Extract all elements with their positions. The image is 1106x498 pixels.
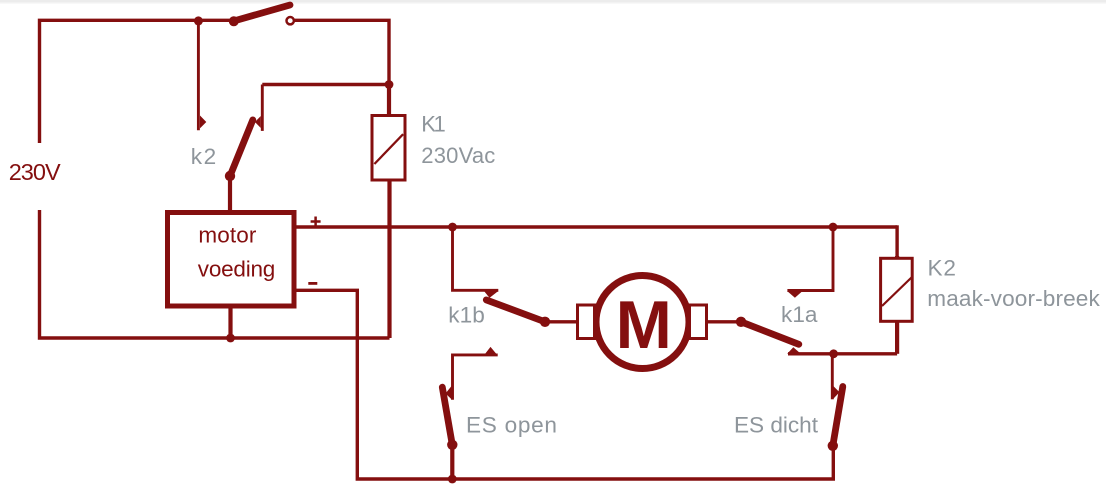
relay coil K2 top pin — [895, 256, 899, 260]
wire 230V lower left rail — [40, 210, 390, 338]
pushbutton ES dicht lead with arrow — [832, 354, 839, 400]
wire minus from box down and bottom rail — [294, 290, 833, 479]
relay coil K1 — [372, 116, 405, 181]
svg-text:maak-voor-breek: maak-voor-breek — [927, 286, 1100, 311]
relay contact k2 left lead with arrow — [198, 20, 206, 130]
svg-text:voeding: voeding — [198, 256, 275, 281]
relay coil K1 top pin — [387, 85, 391, 116]
relay contact k1b blade — [486, 300, 550, 327]
motor M1 left terminal — [578, 305, 595, 339]
svg-text:ES open: ES open — [466, 413, 557, 438]
wire k1b to motor left terminal — [545, 320, 578, 323]
label k1b — [448, 303, 485, 328]
junction node G (bottom rail / ES open) — [448, 475, 457, 484]
junction node B (K1 top) — [385, 80, 394, 89]
wire plus rail corner to K2 — [895, 225, 898, 258]
wire plus rail — [294, 225, 897, 228]
pushbutton ES dicht blade — [828, 387, 843, 451]
relay contact k2 right lead with arrow — [255, 85, 262, 131]
junction node D (plus rail / k1b lead) — [448, 223, 457, 232]
motor voeding top pin (from k2 blade pivot) — [228, 176, 232, 212]
relay contact k1b lead with arrow — [453, 227, 499, 298]
relay coil K2 bottom pin — [895, 321, 899, 354]
wire top rail from 230V to switch S1 — [40, 20, 234, 143]
junction node F (ES dicht top) — [829, 349, 838, 358]
label ES dicht — [734, 413, 819, 438]
junction node E (plus rail / k1a lead) — [829, 223, 838, 232]
svg-text:M: M — [616, 288, 672, 363]
svg-text:K1: K1 — [421, 112, 446, 137]
wire k2 right lead horizontal — [262, 83, 389, 86]
svg-text:K2: K2 — [928, 255, 957, 280]
relay coil K2 — [881, 258, 913, 321]
svg-text:k1b: k1b — [448, 303, 485, 328]
label K1 230Vac — [421, 112, 495, 168]
svg-text:230V: 230V — [9, 159, 61, 185]
junction node A (top rail / k2 lead) — [194, 16, 203, 25]
junction node C (bottom rail) — [226, 334, 235, 343]
switch S1 blade (main switch) — [229, 5, 290, 26]
label k2 — [191, 144, 217, 169]
label K2 maak-voor-breek — [927, 255, 1100, 311]
motor M1 letter M — [616, 288, 672, 363]
node 230V label — [9, 159, 61, 185]
relay contact k2 blade — [225, 120, 253, 181]
label ES open — [466, 413, 557, 438]
wire from S1 contact to K1 top — [294, 20, 389, 84]
label plus — [311, 217, 321, 227]
relay contact k1a lead with arrow — [787, 227, 833, 298]
wire right horizontal (k1a to K2 bottom) — [788, 352, 897, 355]
motor M1 circle — [596, 276, 689, 369]
svg-text:230Vac: 230Vac — [421, 143, 495, 168]
relay coil K1 bottom pin / wire to bottom rail — [387, 180, 391, 338]
svg-text:k2: k2 — [191, 144, 217, 169]
relay contact k1a blade — [736, 317, 801, 354]
wire motor right terminal to k1a pivot — [707, 320, 742, 323]
switch S1 open contact circle — [287, 17, 294, 24]
pushbutton ES open blade — [442, 387, 457, 450]
svg-text:k1a: k1a — [781, 302, 818, 327]
motor voeding bottom pin — [228, 306, 232, 338]
motor M1 right terminal — [690, 305, 707, 339]
motor voeding box U1 — [168, 213, 295, 307]
svg-text:motor: motor — [198, 222, 257, 247]
pushbutton ES open bottom pin — [450, 445, 454, 479]
label minus — [308, 282, 317, 285]
pushbutton ES open top stub with arrow — [446, 347, 498, 400]
svg-text:ES dicht: ES dicht — [734, 413, 819, 438]
label k1a — [781, 302, 818, 327]
